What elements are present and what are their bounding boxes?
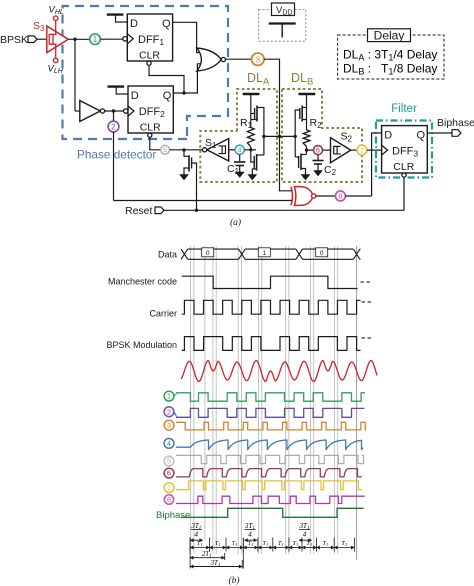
svg-text:Delay: Delay (374, 28, 405, 42)
svg-text:T1: T1 (215, 540, 221, 547)
svg-text:T1: T1 (341, 540, 347, 547)
svg-text:Q: Q (163, 90, 172, 102)
svg-text:T1: T1 (278, 540, 284, 547)
svg-text:D: D (131, 90, 139, 102)
svg-text:(a): (a) (230, 217, 241, 228)
svg-text:Phase detector: Phase detector (77, 148, 156, 162)
svg-text:Biphase: Biphase (437, 117, 474, 129)
svg-text:Carrier: Carrier (149, 309, 177, 319)
svg-text:0: 0 (206, 250, 210, 257)
svg-text:1: 1 (262, 250, 266, 257)
svg-text:Data: Data (158, 250, 177, 260)
svg-text:Filter: Filter (391, 103, 417, 115)
svg-text:T1: T1 (322, 540, 328, 547)
svg-text:6: 6 (167, 469, 171, 478)
svg-text:Reset: Reset (125, 205, 153, 217)
svg-text:D: D (384, 130, 392, 142)
svg-text:7: 7 (167, 483, 171, 492)
svg-text:4: 4 (167, 439, 171, 448)
svg-text:2: 2 (111, 122, 116, 131)
svg-text:T1: T1 (262, 540, 268, 547)
svg-text:Biphase: Biphase (156, 510, 190, 521)
svg-text:T1: T1 (197, 540, 203, 547)
svg-text:2: 2 (167, 407, 171, 416)
svg-text:7: 7 (360, 146, 364, 155)
svg-text:D: D (130, 18, 138, 30)
svg-text:5: 5 (163, 147, 167, 154)
svg-text:1: 1 (93, 35, 98, 44)
svg-text:3: 3 (255, 54, 260, 64)
svg-text:T1: T1 (293, 540, 299, 547)
svg-text:5: 5 (167, 457, 171, 466)
svg-text:CLR: CLR (393, 161, 414, 173)
svg-text:Q: Q (162, 18, 171, 30)
svg-text:Manchester code: Manchester code (108, 277, 177, 287)
svg-text:T1: T1 (232, 540, 238, 547)
svg-text:8: 8 (167, 497, 171, 504)
svg-text:BPSK: BPSK (0, 34, 28, 46)
svg-text:0: 0 (320, 250, 324, 257)
svg-text:CLR: CLR (140, 122, 161, 134)
svg-text:8: 8 (338, 192, 342, 201)
svg-text:1: 1 (167, 392, 171, 401)
svg-text:4: 4 (195, 531, 199, 539)
svg-text:4: 4 (238, 147, 242, 154)
svg-text:T1: T1 (248, 540, 254, 547)
svg-text:4: 4 (248, 531, 252, 539)
svg-text:BPSK Modulation: BPSK Modulation (106, 340, 177, 350)
svg-text:6: 6 (316, 148, 320, 155)
svg-text:CLR: CLR (139, 50, 160, 62)
svg-text:T1: T1 (306, 540, 312, 547)
svg-text:(b): (b) (228, 575, 239, 586)
svg-text:3: 3 (167, 421, 171, 430)
svg-text:4: 4 (303, 531, 307, 539)
svg-text:Q: Q (417, 130, 426, 142)
